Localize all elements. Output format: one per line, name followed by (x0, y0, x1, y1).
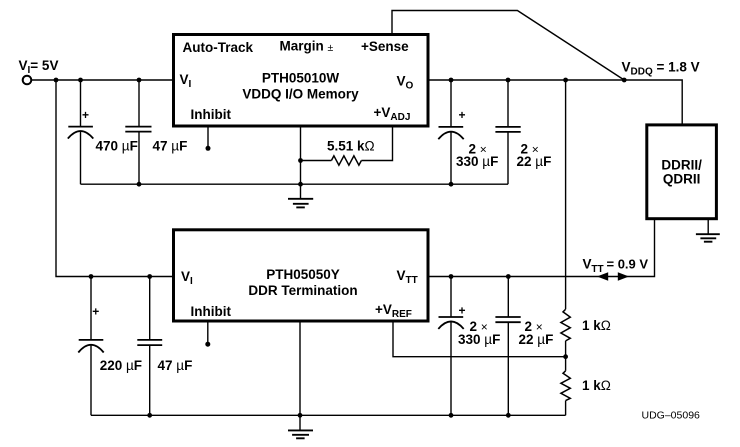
svg-text:47 µF: 47 µF (158, 358, 193, 373)
svg-text:V: V (583, 257, 592, 272)
value label 47 uF (bottom) (158, 358, 193, 373)
capacitor C4 2x22 uF (top) (495, 80, 520, 184)
svg-text:DDRII/: DDRII/ (661, 158, 702, 173)
pin label +VADJ (U1) (374, 105, 411, 123)
value label 470 uF (96, 139, 138, 154)
node junction input rail / C2 (137, 78, 142, 83)
label PTH05050Y DDR Termination (U2 title) (248, 267, 357, 298)
wire VDDQ down to divider (crosses VTT, no junction) (565, 80, 567, 309)
value label 1 kOhm (lower) (582, 378, 611, 393)
pin label VI (U1) (180, 72, 192, 90)
node junction bottom rail / C6 (147, 413, 152, 418)
svg-text:1 kΩ: 1 kΩ (582, 378, 611, 393)
node junction bottom rail / C8 (506, 413, 511, 418)
node junction VO rail / divider feed (563, 78, 568, 83)
pin label VI (U2) (181, 269, 193, 287)
svg-text:+: + (82, 108, 89, 122)
svg-text:220 µF: 220 µF (100, 358, 142, 373)
label +Sense (U1) (361, 39, 409, 54)
module U2 PTH05050Y box (174, 230, 429, 321)
svg-text:Inhibit: Inhibit (191, 304, 232, 319)
node junction bottom rail / C7 (449, 413, 454, 418)
node junction U1 GND / R1 (298, 158, 303, 163)
capacitor C5 220 uF (polarized) (78, 277, 103, 416)
label VTT = 0.9 V (583, 257, 649, 275)
svg-text:PTH05050Y: PTH05050Y (266, 267, 340, 282)
value label 2 x 330 uF (top) (456, 142, 498, 169)
value label 1 kOhm (upper) (582, 318, 611, 333)
svg-text:VDDQ I/O Memory: VDDQ I/O Memory (242, 87, 359, 102)
input terminal VI = 5V (23, 76, 32, 85)
node junction input rail / feed to U2 (54, 78, 59, 83)
value label 47 uF (153, 139, 188, 154)
wire DDRII gnd pin (707, 220, 709, 234)
svg-text:330 µF: 330 µF (456, 154, 498, 169)
inhibit stub U2 (205, 322, 210, 347)
node VDDQ (622, 78, 627, 83)
node junction gnd rail / C2 (137, 182, 142, 187)
node junction VO rail / C3 (449, 78, 454, 83)
svg-text:UDG–05096: UDG–05096 (642, 410, 701, 422)
ground rail of U1 section (81, 183, 509, 185)
svg-text:TT: TT (591, 264, 603, 275)
wire U2 GND pin down (299, 322, 301, 416)
inhibit stub U1 (206, 126, 211, 151)
capacitor C1 470 uF (polarized) (68, 80, 94, 184)
capacitor C7 2x330 uF (bottom, polarized) (438, 277, 465, 416)
node junction U2 input rail / C5 (89, 274, 94, 279)
svg-text:22 µF: 22 µF (517, 154, 552, 169)
node junction gnd rail / C3 (449, 182, 454, 187)
svg-text:+Sense: +Sense (361, 39, 409, 54)
ground symbol U2 section (288, 415, 313, 438)
value label 2 x 22 uF (top) (517, 142, 552, 169)
node junction gnd rail / U1 GND (298, 182, 303, 187)
value label 220 uF (100, 358, 142, 373)
wire VTT rail to DDRII (428, 220, 655, 277)
wire U1 GND pin down (300, 126, 302, 184)
wire +VREF to divider midpoint (393, 322, 566, 357)
bottom ground rail (91, 414, 566, 416)
ground symbol DDRII (696, 234, 720, 242)
wire +Sense loop to VDDQ node (392, 11, 624, 81)
svg-text:+: + (459, 108, 466, 122)
value label 5.51 kOhm (327, 138, 375, 153)
label VI= 5V (19, 58, 59, 76)
node junction VTT rail / C8 (506, 274, 511, 279)
svg-text:Margin ±: Margin ± (280, 39, 334, 55)
svg-text:Inhibit: Inhibit (191, 107, 232, 122)
svg-text:QDRII: QDRII (663, 172, 701, 187)
pin label VTT (U2) (397, 268, 418, 286)
label Margin ± (U1) (280, 39, 334, 55)
label Auto-Track (U1) (183, 40, 254, 55)
node junction bottom rail / U2 GND (298, 413, 303, 418)
node junction divider midpoint (563, 354, 568, 359)
wire input rail to U1 VI (31, 79, 173, 81)
svg-text:1 kΩ: 1 kΩ (582, 318, 611, 333)
value label 2 x 330 uF (bottom) (458, 319, 500, 347)
svg-text:22 µF: 22 µF (519, 332, 554, 347)
node junction input rail / C1 (78, 78, 83, 83)
wire VO output rail (428, 80, 682, 124)
svg-text:470 µF: 470 µF (96, 139, 138, 154)
pin label +VREF (U2) (375, 302, 412, 320)
pin label Inhibit (U2) (191, 304, 232, 319)
label PTH05010W VDDQ I/O Memory (U1 title) (242, 71, 359, 102)
svg-text:PTH05010W: PTH05010W (262, 71, 340, 86)
pin label Inhibit (U1) (191, 107, 232, 122)
resistor R1 5.51 kOhm (301, 126, 393, 165)
wire from input rail down to U2 VI (56, 80, 174, 277)
svg-text:Auto-Track: Auto-Track (183, 40, 254, 55)
svg-text:5.51 kΩ: 5.51 kΩ (327, 138, 375, 153)
svg-text:+: + (459, 304, 466, 318)
node junction U2 input rail / C6 (147, 274, 152, 279)
label VDDQ = 1.8 V (622, 60, 700, 78)
node junction VTT rail / C7 (449, 274, 454, 279)
capacitor C8 2x22 uF (bottom) (495, 277, 520, 416)
ground symbol U1 section (288, 184, 313, 207)
resistor R2 1 kOhm (upper) (561, 309, 570, 356)
svg-text:47 µF: 47 µF (153, 139, 188, 154)
module U1 PTH05010W box (174, 35, 429, 127)
pin label VO (U1) (397, 74, 414, 92)
capacitor C3 2x330 uF (polarized) (438, 80, 465, 184)
svg-text:+: + (92, 305, 99, 319)
svg-text:= 0.9 V: = 0.9 V (607, 257, 649, 272)
capacitor C6 47 uF (bottom) (137, 277, 162, 416)
svg-text:DDR Termination: DDR Termination (248, 283, 357, 298)
value label 2 x 22 uF (bottom) (519, 319, 554, 347)
label UDG-05096 (642, 410, 701, 422)
arrow VTT bidirectional (597, 272, 629, 281)
node junction VO rail / C4 (506, 78, 511, 83)
svg-text:330 µF: 330 µF (458, 332, 500, 347)
resistor R3 1 kOhm (lower) (561, 357, 570, 416)
block DDRII/QDRII (647, 125, 717, 219)
capacitor C2 47 uF (125, 80, 151, 184)
